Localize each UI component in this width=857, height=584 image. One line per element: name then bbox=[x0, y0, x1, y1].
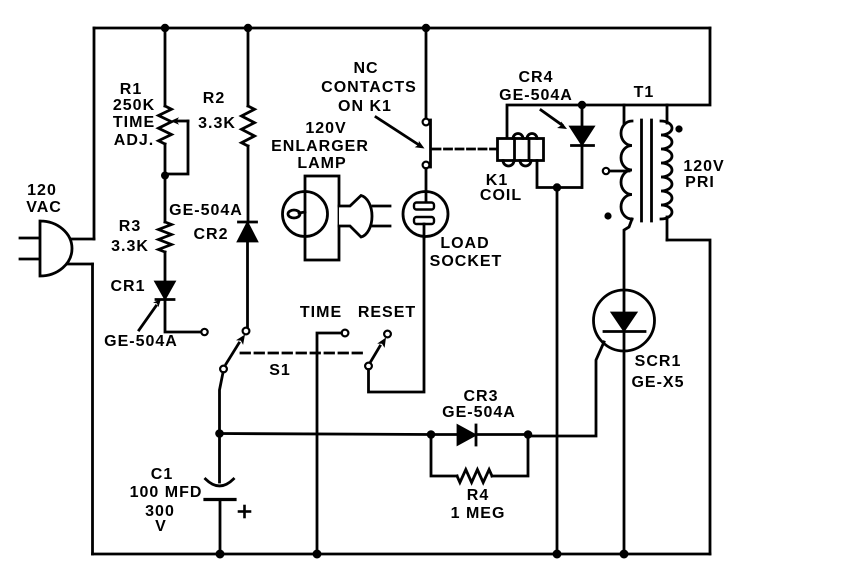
plug prong upper bbox=[20, 237, 40, 240]
svg-text:1 MEG: 1 MEG bbox=[451, 505, 506, 522]
wire TIME to bottom rail bbox=[317, 333, 342, 554]
arrow pointer CR4 bbox=[541, 110, 567, 129]
node bottom rail K1 bbox=[553, 550, 562, 559]
dashed link S1 bbox=[241, 352, 365, 355]
plug P1 120 VAC body bbox=[40, 221, 72, 276]
wire left border upper bbox=[93, 28, 96, 239]
wire CR3 anode bbox=[431, 433, 458, 436]
label LOAD SOCKET bbox=[430, 235, 503, 270]
wire CR3 cathode bbox=[476, 433, 528, 436]
svg-text:LAMP: LAMP bbox=[297, 155, 346, 172]
node bottom rail C1 bbox=[216, 550, 225, 559]
svg-text:R4: R4 bbox=[467, 487, 489, 504]
node CR3 cathode junction bbox=[524, 430, 533, 439]
NC upper contact circle bbox=[423, 119, 430, 126]
svg-text:S1: S1 bbox=[269, 362, 291, 379]
wire switch to C1 node bbox=[220, 373, 224, 434]
node top rail NC bbox=[422, 24, 430, 32]
node top rail R2 bbox=[244, 24, 252, 32]
dashed link NC to K1 coil bbox=[433, 148, 497, 151]
svg-text:GE-504A: GE-504A bbox=[499, 87, 573, 104]
label GE-504A CR2 bbox=[169, 202, 243, 243]
switch RESET lower contact bbox=[365, 363, 372, 370]
label R3 3.3K bbox=[111, 218, 149, 255]
wire right border bbox=[667, 28, 710, 105]
node secondary bottom junction bbox=[553, 183, 561, 191]
wire K1 coil bottom bbox=[537, 161, 581, 188]
svg-text:C1: C1 bbox=[151, 466, 173, 483]
wire NC to load socket bbox=[425, 169, 428, 205]
svg-text:120V: 120V bbox=[683, 158, 724, 175]
switch S1 left pole arm bbox=[226, 335, 245, 365]
svg-text:VAC: VAC bbox=[26, 199, 62, 216]
wire R2 to CR2 bbox=[247, 146, 250, 222]
wire left border lower bbox=[91, 264, 94, 554]
wire SCR cathode to bottom rail bbox=[623, 332, 626, 555]
wire junction to bottom rail bbox=[556, 188, 559, 555]
node top rail R1 bbox=[161, 24, 169, 32]
wire center tap bbox=[610, 170, 630, 173]
transformer T1 primary winding bbox=[661, 121, 672, 219]
wire secondary bottom to SCR bbox=[624, 219, 632, 290]
resistor R2 3.3K bbox=[242, 106, 255, 146]
svg-text:RESET: RESET bbox=[358, 304, 416, 321]
svg-text:120: 120 bbox=[27, 182, 57, 199]
svg-text:V: V bbox=[155, 518, 167, 535]
label R4 1 MEG bbox=[451, 487, 506, 522]
svg-text:TIME: TIME bbox=[300, 304, 342, 321]
SCR1 anode stub bbox=[623, 290, 626, 313]
svg-text:GE-X5: GE-X5 bbox=[631, 374, 684, 391]
SCR1 body circle bbox=[594, 290, 655, 351]
label SCR1 GE-X5 bbox=[631, 353, 684, 391]
svg-text:CR3: CR3 bbox=[463, 388, 498, 405]
NC contact blade bbox=[429, 120, 432, 167]
lamp plug neck and D-plug bbox=[339, 196, 372, 238]
load socket body bbox=[403, 192, 448, 237]
wire C1 to CR3 rail bbox=[220, 434, 432, 435]
label C1 100 MFD 300 V bbox=[130, 466, 203, 535]
resistor R3 3.3K bbox=[159, 222, 172, 252]
enlarger lamp body bbox=[283, 176, 340, 260]
diode CR2 bbox=[239, 222, 257, 241]
svg-text:GE-504A: GE-504A bbox=[442, 404, 516, 421]
arrow pointer GE-504A to CR1 bbox=[139, 299, 161, 330]
plug prong lower bbox=[20, 258, 40, 261]
NC lower contact circle bbox=[423, 162, 430, 169]
switch S1 left pole lower contact bbox=[220, 366, 227, 373]
svg-text:ON K1: ON K1 bbox=[338, 98, 392, 115]
wire top rail bbox=[94, 27, 710, 30]
switch S1 left pole upper contact bbox=[243, 328, 250, 335]
svg-text:TIME: TIME bbox=[113, 114, 155, 131]
polarity dot secondary bbox=[604, 212, 611, 219]
svg-text:R1: R1 bbox=[120, 81, 142, 98]
R1 wiper arrowhead bbox=[171, 117, 180, 124]
wire K1 coil top feed bbox=[507, 105, 667, 138]
label R1 250K TIME ADJ bbox=[113, 81, 155, 149]
wire CR1 to terminal bbox=[165, 300, 201, 333]
wire load socket lower bbox=[423, 224, 426, 238]
wire R1 branch top bbox=[164, 28, 167, 106]
svg-text:ENLARGER: ENLARGER bbox=[271, 138, 369, 155]
svg-text:3.3K: 3.3K bbox=[111, 238, 149, 255]
svg-text:R3: R3 bbox=[119, 218, 141, 235]
switch RESET upper contact bbox=[384, 331, 391, 338]
label NC CONTACTS ON K1 bbox=[321, 60, 417, 115]
wire R1 bottom to R3 bbox=[164, 144, 167, 222]
svg-text:100 MFD: 100 MFD bbox=[130, 484, 203, 501]
plug lower wire bbox=[58, 263, 93, 266]
switch TIME contact bbox=[342, 330, 349, 337]
svg-text:ADJ.: ADJ. bbox=[114, 132, 154, 149]
diode CR3 bbox=[458, 425, 476, 445]
svg-text:SCR1: SCR1 bbox=[635, 353, 682, 370]
wire C1 top bbox=[218, 434, 221, 483]
node R1 wiper junction bbox=[161, 172, 169, 180]
transformer core bbox=[642, 120, 652, 221]
polarity dot primary bbox=[675, 125, 682, 132]
wire primary bottom bbox=[666, 217, 669, 240]
node bottom rail SCR bbox=[620, 550, 629, 559]
svg-text:CR2: CR2 bbox=[193, 226, 228, 243]
svg-text:NC: NC bbox=[353, 60, 378, 77]
R1 wiper arm bbox=[176, 120, 188, 123]
svg-text:GE-504A: GE-504A bbox=[104, 333, 178, 350]
label K1 COIL bbox=[480, 172, 522, 204]
R4 parallel loop left bbox=[431, 435, 457, 477]
svg-text:R2: R2 bbox=[203, 90, 225, 107]
label R2 3.3K bbox=[198, 90, 236, 132]
wire right border lower bbox=[667, 240, 710, 554]
node CR4 anode junction bbox=[578, 101, 586, 109]
transformer center tap terminal bbox=[603, 168, 609, 174]
label CR3 GE-504A bbox=[442, 388, 516, 421]
svg-text:CR1: CR1 bbox=[110, 278, 145, 295]
transformer T1 secondary winding bbox=[621, 121, 632, 219]
capacitor C1 plus sign bbox=[239, 506, 250, 517]
node C1 top junction bbox=[215, 429, 224, 438]
wire C1 bottom bbox=[219, 500, 222, 555]
wire CR2 to switch bbox=[246, 241, 249, 327]
wire R2 branch top bbox=[247, 28, 250, 106]
svg-text:120V: 120V bbox=[305, 120, 346, 137]
svg-text:COIL: COIL bbox=[480, 187, 522, 204]
svg-text:T1: T1 bbox=[634, 84, 655, 101]
R4 parallel loop right bbox=[492, 435, 528, 477]
terminal circle CR1 out bbox=[201, 329, 207, 335]
wire R1 wiper return bbox=[166, 121, 188, 174]
svg-text:GE-504A: GE-504A bbox=[169, 202, 243, 219]
svg-text:CR4: CR4 bbox=[518, 69, 553, 86]
wire R3 to CR1 bbox=[164, 252, 167, 282]
label 120 VAC bbox=[26, 182, 62, 216]
svg-text:CONTACTS: CONTACTS bbox=[321, 79, 417, 96]
resistor R1 250K bbox=[159, 106, 172, 144]
node CR3 anode junction bbox=[427, 430, 436, 439]
wire RESET to load socket bbox=[369, 238, 425, 392]
wire SCR gate bbox=[528, 342, 604, 436]
diode CR1 bbox=[156, 282, 174, 300]
svg-text:250K: 250K bbox=[113, 97, 155, 114]
wire primary top bbox=[666, 105, 669, 123]
relay coil K1 bbox=[498, 134, 544, 167]
transformer T1 secondary top feed bbox=[623, 105, 626, 124]
diode CR4 bbox=[571, 105, 594, 188]
SCR1 cathode bar bbox=[604, 330, 645, 333]
svg-text:3.3K: 3.3K bbox=[198, 115, 236, 132]
node bottom rail TIME bbox=[313, 550, 322, 559]
arrow pointer ON K1 bbox=[376, 117, 425, 149]
switch RESET arm bbox=[371, 338, 387, 363]
load socket lower slot bbox=[414, 217, 434, 224]
svg-text:SOCKET: SOCKET bbox=[430, 253, 503, 270]
plug upper wire bbox=[60, 238, 94, 241]
label CR4 GE-504A bbox=[499, 69, 573, 104]
wire bottom rail bbox=[93, 553, 711, 556]
lamp plug prongs bbox=[373, 206, 390, 226]
resistor R4 1 MEG bbox=[457, 470, 492, 483]
SCR1 triangle bbox=[613, 313, 636, 330]
svg-text:LOAD: LOAD bbox=[440, 235, 489, 252]
label 120V PRI bbox=[683, 158, 724, 191]
svg-text:PRI: PRI bbox=[685, 174, 715, 191]
lamp filament bbox=[288, 210, 305, 218]
wire NC branch from top rail bbox=[425, 28, 428, 119]
capacitor C1 straight plate bbox=[205, 498, 235, 501]
load socket upper slot bbox=[414, 203, 434, 210]
label 120V ENLARGER LAMP bbox=[271, 120, 369, 172]
capacitor C1 curved plate bbox=[206, 479, 234, 486]
